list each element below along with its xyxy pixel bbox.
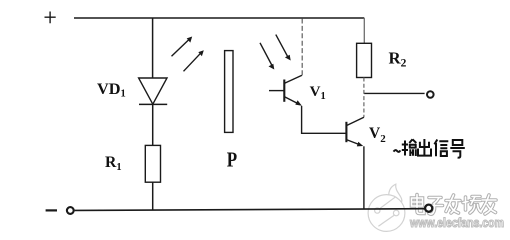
svg-text:V2: V2	[369, 125, 386, 145]
svg-text:P: P	[227, 149, 238, 172]
svg-text:R1: R1	[105, 154, 122, 173]
svg-text:VD1: VD1	[97, 79, 126, 100]
svg-text:V1: V1	[310, 84, 326, 102]
svg-text:www.elecfans.com: www.elecfans.com	[409, 216, 504, 230]
svg-text:R2: R2	[389, 49, 407, 70]
